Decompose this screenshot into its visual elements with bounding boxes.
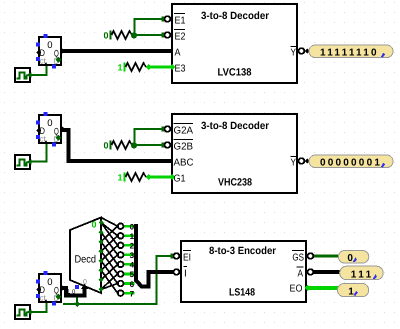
- svg-text:0: 0: [83, 279, 87, 286]
- svg-text:Y: Y: [291, 158, 297, 169]
- svg-text:EO: EO: [290, 284, 303, 295]
- svg-text:3: 3: [130, 251, 135, 260]
- svg-text:LS148: LS148: [229, 287, 255, 299]
- svg-text:Decd: Decd: [75, 254, 97, 266]
- svg-text:E3: E3: [175, 64, 186, 75]
- svg-text:G1: G1: [174, 174, 186, 185]
- svg-text:E1: E1: [175, 16, 186, 27]
- svg-text:2: 2: [130, 242, 135, 251]
- svg-text:G2A: G2A: [174, 126, 194, 137]
- svg-text:4: 4: [130, 261, 135, 270]
- svg-text:3-to-8 Decoder: 3-to-8 Decoder: [201, 120, 269, 132]
- svg-text:EI: EI: [183, 253, 191, 264]
- svg-text:A: A: [175, 48, 181, 59]
- svg-text:111: 111: [351, 269, 374, 280]
- svg-text:1: 1: [130, 232, 135, 241]
- svg-text:GS: GS: [292, 253, 304, 264]
- svg-text:0: 0: [130, 222, 135, 231]
- svg-text:0: 0: [92, 220, 97, 230]
- svg-text:0: 0: [347, 253, 353, 264]
- svg-text:G2B: G2B: [174, 142, 194, 153]
- svg-text:11111110: 11111110: [320, 48, 379, 59]
- svg-text:Y: Y: [291, 48, 297, 59]
- svg-text:1: 1: [348, 287, 354, 298]
- svg-text:A: A: [298, 269, 304, 280]
- svg-text:E2: E2: [175, 32, 186, 43]
- svg-text:6: 6: [130, 280, 135, 289]
- svg-text:8-to-3 Encoder: 8-to-3 Encoder: [209, 245, 276, 257]
- svg-text:LVC138: LVC138: [218, 67, 252, 79]
- svg-text:VHC238: VHC238: [218, 177, 252, 189]
- svg-text:7: 7: [130, 289, 135, 298]
- svg-text:00000001: 00000001: [320, 158, 382, 169]
- svg-text:1 0: 1 0: [67, 289, 76, 296]
- svg-text:ABC: ABC: [174, 158, 194, 169]
- svg-text:5: 5: [130, 270, 135, 279]
- svg-text:I: I: [184, 269, 187, 280]
- svg-text:3-to-8 Decoder: 3-to-8 Decoder: [201, 10, 269, 22]
